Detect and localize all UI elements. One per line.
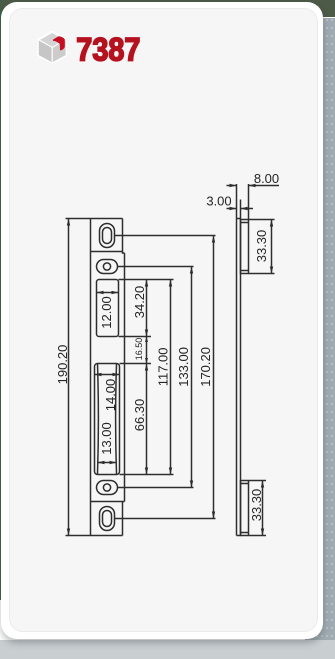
- svg-text:14.00: 14.00: [103, 379, 118, 412]
- svg-text:117.00: 117.00: [155, 348, 170, 387]
- svg-text:190.20: 190.20: [55, 345, 70, 385]
- front view: bottom tab boundary line: [91, 501, 125, 503]
- red ribbon mark: [53, 36, 65, 50]
- side view: top lip box: [241, 220, 249, 274]
- extensions top 33.30: [249, 220, 275, 274]
- svg-text:33.30: 33.30: [249, 489, 264, 522]
- dimension 12.00 line: [97, 292, 119, 294]
- leader top oval to 170.20: [115, 235, 216, 237]
- extension cutout1 top: [119, 279, 174, 281]
- dimension 14.00 line: [95, 374, 120, 376]
- svg-text:66.30: 66.30: [132, 399, 147, 432]
- svg-text:170.20: 170.20: [198, 347, 213, 387]
- svg-text:7387: 7387: [76, 32, 140, 68]
- svg-text:12.00: 12.00: [99, 296, 114, 329]
- svg-text:33.30: 33.30: [254, 230, 269, 263]
- extension cutout1 bottom: [119, 336, 152, 338]
- svg-text:34.20: 34.20: [132, 286, 147, 319]
- dimension 170.20 line: [213, 236, 215, 519]
- top screw hole: [103, 263, 110, 270]
- cube face seams: [39, 32, 66, 62]
- front view: top tab right edge: [122, 219, 124, 252]
- logo cube icon: [39, 32, 66, 62]
- extension cutout2 top: [120, 363, 152, 365]
- dimension 66.30 line: [146, 364, 148, 475]
- dimension 117.00 line: [170, 280, 172, 475]
- side view: bottom lip box: [241, 481, 249, 536]
- bottom cutout tapered walls: [98, 364, 117, 474]
- bottom oval slot outer: [100, 507, 115, 531]
- top oval slot inner: [103, 228, 112, 244]
- front view: plate bottom edge + 190.20 extension: [66, 535, 123, 537]
- cube left face: [39, 40, 52, 63]
- dimension 33.30 top line: [271, 220, 273, 274]
- svg-text:133.00: 133.00: [176, 347, 191, 387]
- dark top page edge: [0, 0, 335, 17]
- leader top screw to 133.00: [118, 266, 194, 268]
- extensions bottom 33.30: [249, 481, 266, 536]
- bottom oval slot inner: [103, 511, 112, 527]
- svg-text:3.00: 3.00: [206, 194, 231, 209]
- bottom cutout outer: [95, 364, 120, 475]
- dimension 133.00 line: [191, 267, 193, 488]
- dark left page edge: [0, 0, 1, 600]
- front view: top tab boundary line: [91, 251, 123, 253]
- leader bottom screw to 133.00: [118, 487, 194, 489]
- top screw hole boss: [97, 260, 118, 274]
- dimension 33.30 bottom line: [262, 481, 264, 536]
- side view: plate strip: [237, 219, 241, 536]
- side view: bottom lip caps: [241, 484, 249, 533]
- dimension 190.20 line: [68, 219, 70, 536]
- cube white halo: [39, 32, 66, 62]
- side view: top lip caps: [241, 223, 249, 271]
- svg-text:13.00: 13.00: [99, 422, 114, 455]
- front view: plate left edge: [90, 219, 92, 536]
- top rectangular cutout 12x34.2: [97, 280, 119, 337]
- dimension 3.00 line: [227, 208, 254, 210]
- top oval slot outer: [100, 224, 115, 248]
- svg-text:8.00: 8.00: [254, 171, 279, 186]
- leader bottom oval to 170.20: [115, 518, 216, 520]
- dimension 13.00 line: [98, 462, 117, 464]
- front view: plate top edge + 190.20 extension: [66, 218, 123, 220]
- dimension 8.00 line: [227, 185, 280, 187]
- extension cutout2 bottom: [120, 474, 174, 476]
- cube right face: [52, 40, 65, 63]
- cube top face: [39, 32, 66, 47]
- front view: body right edge: [124, 253, 126, 502]
- front view: top step: [123, 252, 125, 254]
- bottom page band: [0, 640, 335, 659]
- svg-text:16.50: 16.50: [134, 338, 144, 361]
- dimension 34.20 line: [146, 280, 148, 337]
- bottom screw hole: [103, 484, 110, 491]
- right page band: [305, 18, 335, 659]
- extensions for 8.00 and 3.00: [237, 184, 249, 220]
- bottom screw hole boss: [97, 481, 118, 495]
- dimension 16.50 line: [146, 337, 148, 364]
- front view: bottom tab right edge: [122, 502, 124, 536]
